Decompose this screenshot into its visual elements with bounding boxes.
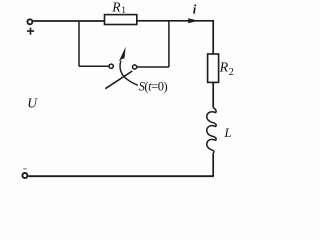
- svg-text:i: i: [193, 2, 197, 16]
- wire inductor to bottom corner: [212, 153, 214, 176]
- wire switch branch right: [137, 21, 169, 67]
- resistor R2: [208, 54, 219, 82]
- wire right vertical to R2: [212, 20, 214, 54]
- wire R2 to inductor: [212, 82, 214, 107]
- svg-text:S(t=0): S(t=0): [139, 79, 168, 93]
- wire switch branch left vertical: [79, 21, 109, 67]
- plus sign: [27, 28, 34, 35]
- switch arrowhead: [119, 47, 126, 62]
- svg-text:2: 2: [229, 67, 234, 78]
- terminal plus (top-left): [27, 19, 32, 24]
- wire top-left horizontal: [33, 20, 105, 22]
- svg-text:R: R: [219, 61, 229, 76]
- svg-text:R: R: [111, 0, 121, 14]
- minus sign: [23, 168, 27, 170]
- terminal minus (bottom-left): [22, 173, 27, 178]
- inductor L: [207, 108, 216, 154]
- svg-text:U: U: [27, 95, 38, 110]
- current arrowhead i: [188, 18, 198, 23]
- switch contact right: [133, 65, 137, 69]
- svg-text:L: L: [224, 126, 232, 140]
- switch contact left: [109, 64, 113, 68]
- wire bottom horizontal: [28, 175, 214, 177]
- resistor R1: [105, 15, 137, 25]
- switch motion arrow arc: [120, 61, 138, 86]
- svg-text:1: 1: [121, 6, 126, 16]
- wire R1 to corner: [137, 20, 213, 22]
- switch blade: [105, 71, 132, 89]
